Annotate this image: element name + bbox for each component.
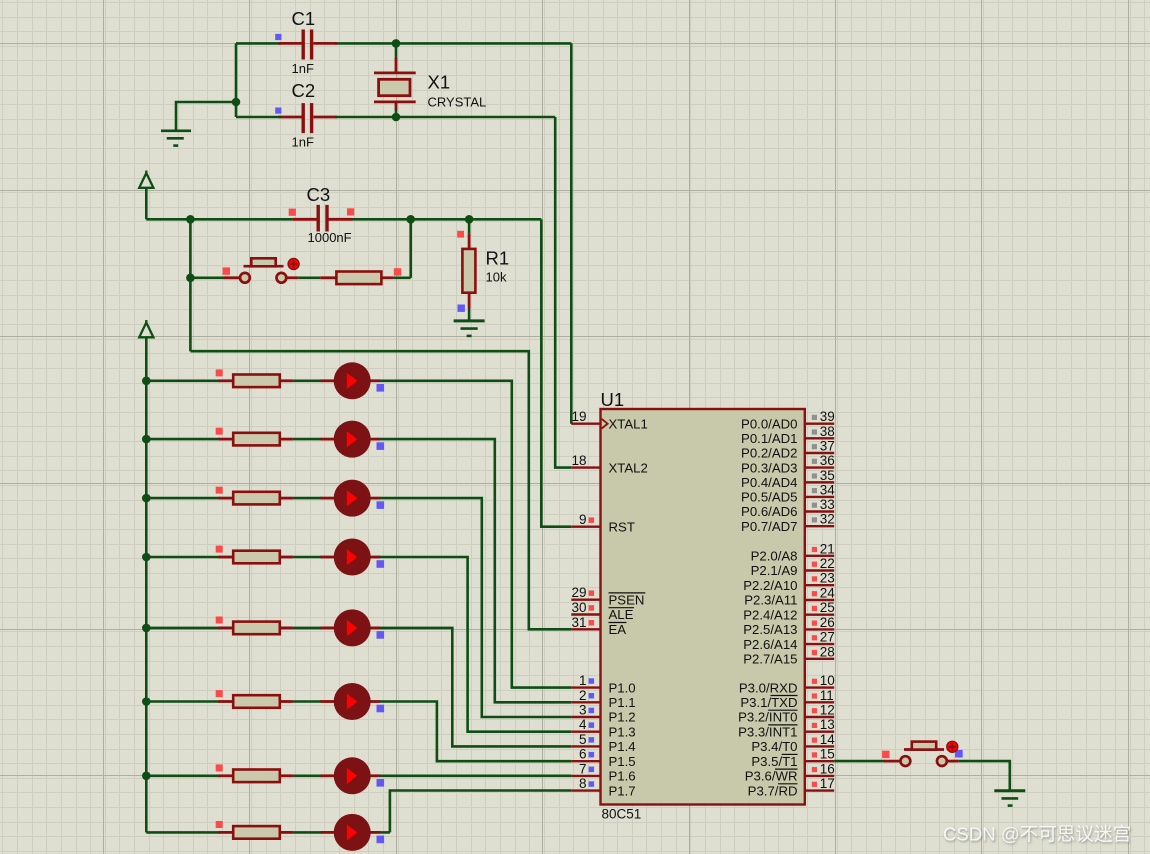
capacitor C2 xyxy=(275,103,337,133)
wire row 2 LED to pin 2 xyxy=(380,439,571,702)
svg-text:23: 23 xyxy=(820,571,835,586)
wire power stem (lower) xyxy=(145,337,148,381)
LED D7 xyxy=(321,757,385,794)
pin 17 P3.7/RD (right) xyxy=(748,776,835,798)
capacitor C1 xyxy=(275,30,337,60)
svg-text:P3.4/T0: P3.4/T0 xyxy=(751,739,797,754)
node bus row 6 xyxy=(142,697,151,706)
wire power stem (upper) xyxy=(145,188,148,220)
pin 12 P3.2/INT0 (right) xyxy=(738,703,835,725)
pin 13 P3.3/INT1 (right) xyxy=(738,717,835,739)
svg-text:P3.5/T1: P3.5/T1 xyxy=(751,754,797,769)
wire XTAL1 drop xyxy=(570,43,573,423)
svg-text:CRYSTAL: CRYSTAL xyxy=(428,94,487,109)
svg-text:P3.3/INT1: P3.3/INT1 xyxy=(738,724,797,739)
svg-text:CSDN @不可思议迷宫: CSDN @不可思议迷宫 xyxy=(943,824,1131,845)
node junction C3/button-res xyxy=(406,215,415,224)
wire row 5 LED to pin 5 xyxy=(380,628,571,747)
pin 30 ALE (left) xyxy=(571,600,634,622)
svg-text:1000nF: 1000nF xyxy=(308,230,352,245)
svg-text:P1.3: P1.3 xyxy=(609,724,636,739)
pin 14 P3.4/T0 (right) xyxy=(751,732,835,754)
svg-text:P3.7/RD: P3.7/RD xyxy=(748,783,798,798)
wire row 1 LED to pin 1 xyxy=(380,381,571,688)
wire C2 row to XTAL2 column xyxy=(335,116,555,119)
wire vertical button/EA xyxy=(189,219,192,351)
svg-text:P2.1/A9: P2.1/A9 xyxy=(751,563,798,578)
wire C2 row left xyxy=(236,116,281,119)
wire drop C3 to button row xyxy=(409,219,412,277)
wire row 7 bus to resistor xyxy=(146,774,220,777)
pin 9 RST (left) xyxy=(571,512,635,534)
crystal X1 xyxy=(374,43,416,117)
wire row 8 resistor to LED xyxy=(293,831,322,834)
wire row 6 resistor to LED xyxy=(293,700,322,703)
svg-text:C1: C1 xyxy=(292,8,316,29)
ground (below R1) xyxy=(454,321,485,336)
wire vertical C1-C2 left xyxy=(235,43,238,117)
svg-text:7: 7 xyxy=(579,761,587,776)
svg-text:38: 38 xyxy=(820,424,835,439)
wire button row right xyxy=(394,276,411,279)
wire row 2 bus to resistor xyxy=(146,438,220,441)
svg-text:P1.2: P1.2 xyxy=(609,710,636,725)
pin 32 P0.7/AD7 (right) xyxy=(741,512,835,534)
svg-text:30: 30 xyxy=(571,600,586,615)
resistor (LED row 1) xyxy=(216,369,293,387)
svg-text:P1.1: P1.1 xyxy=(609,695,636,710)
wire pin15 to button xyxy=(834,760,884,763)
wire row 4 LED to pin 4 xyxy=(380,557,571,732)
wire row 3 resistor to LED xyxy=(293,497,322,500)
wire row 1 bus to resistor xyxy=(146,379,220,382)
svg-text:P1.0: P1.0 xyxy=(609,680,636,695)
svg-text:2: 2 xyxy=(579,688,587,703)
svg-text:P0.3/AD3: P0.3/AD3 xyxy=(741,460,797,475)
svg-text:11: 11 xyxy=(820,688,834,703)
pin 21 P2.0/A8 (right) xyxy=(751,541,835,563)
wire R1 to ground xyxy=(468,309,471,321)
svg-text:8: 8 xyxy=(579,776,587,791)
svg-text:P3.6/WR: P3.6/WR xyxy=(745,769,798,784)
node crystal bottom xyxy=(392,113,401,122)
pin 2 P1.1 (left) xyxy=(571,688,635,710)
pin 37 P0.2/AD2 (right) xyxy=(741,439,835,461)
svg-text:34: 34 xyxy=(820,482,836,497)
pin 35 P0.4/AD4 (right) xyxy=(741,468,835,490)
svg-text:10: 10 xyxy=(820,673,835,688)
svg-text:16: 16 xyxy=(820,761,835,776)
svg-text:1: 1 xyxy=(579,673,587,688)
pin 6 P1.5 (left) xyxy=(571,747,635,769)
resistor R1 xyxy=(457,231,475,312)
svg-text:P3.0/RXD: P3.0/RXD xyxy=(739,680,798,695)
pin 34 P0.5/AD5 (right) xyxy=(741,482,835,504)
svg-text:80C51: 80C51 xyxy=(602,807,642,822)
pin 16 P3.6/WR (right) xyxy=(745,761,835,783)
wire C1 row left xyxy=(236,42,281,45)
ground (top-left) xyxy=(161,131,191,146)
wire C3 node to R1 xyxy=(468,219,471,233)
svg-text:4: 4 xyxy=(579,717,587,732)
pin 4 P1.3 (left) xyxy=(571,717,635,739)
power symbol (upper) xyxy=(139,171,153,188)
svg-text:25: 25 xyxy=(820,600,835,615)
pin 10 P3.0/RXD (right) xyxy=(739,673,835,695)
push button (reset) xyxy=(223,258,299,282)
svg-text:RST: RST xyxy=(609,519,635,534)
pin 38 P0.1/AD1 (right) xyxy=(741,424,835,446)
LED D2 xyxy=(321,421,385,458)
svg-text:P1.7: P1.7 xyxy=(609,783,636,798)
svg-text:39: 39 xyxy=(820,409,835,424)
svg-text:C3: C3 xyxy=(307,184,331,205)
wire ground branch top-left xyxy=(176,102,236,131)
wire row 8 bus to resistor xyxy=(146,831,220,834)
svg-text:P0.1/AD1: P0.1/AD1 xyxy=(741,431,797,446)
svg-text:9: 9 xyxy=(579,512,587,527)
resistor (LED row 6) xyxy=(216,690,293,708)
resistor (LED row 8) xyxy=(216,821,293,839)
pin 39 P0.0/AD0 (right) xyxy=(741,409,835,431)
LED D8 xyxy=(321,814,385,851)
pin 31 EA (left) xyxy=(571,615,626,637)
node bus row 1 xyxy=(142,377,151,386)
wire EA tie to VCC xyxy=(190,351,571,629)
pin 33 P0.6/AD6 (right) xyxy=(741,497,835,519)
pin 28 P2.7/A15 (right) xyxy=(743,644,835,666)
node bus row 4 xyxy=(142,553,151,562)
pin 3 P1.2 (left) xyxy=(571,703,635,725)
pin 5 P1.4 (left) xyxy=(571,732,635,754)
svg-text:31: 31 xyxy=(571,615,586,630)
resistor (LED row 5) xyxy=(216,617,293,635)
pin 15 P3.5/T1 (right) xyxy=(751,747,835,769)
svg-text:P3.2/INT0: P3.2/INT0 xyxy=(738,710,797,725)
svg-text:21: 21 xyxy=(820,541,835,556)
svg-text:P1.5: P1.5 xyxy=(609,754,636,769)
svg-text:37: 37 xyxy=(820,439,835,454)
svg-text:14: 14 xyxy=(820,732,836,747)
capacitor C3 xyxy=(289,205,355,232)
svg-text:35: 35 xyxy=(820,468,835,483)
svg-text:C2: C2 xyxy=(292,80,316,101)
svg-text:P2.7/A15: P2.7/A15 xyxy=(743,652,797,667)
svg-text:19: 19 xyxy=(571,409,586,424)
svg-text:10k: 10k xyxy=(486,270,507,285)
resistor (LED row 3) xyxy=(216,487,293,505)
node crystal top xyxy=(392,39,401,48)
svg-text:12: 12 xyxy=(820,703,835,718)
pin 23 P2.2/A10 (right) xyxy=(743,571,835,593)
node junction ground tap xyxy=(232,98,241,107)
LED D4 xyxy=(321,539,385,576)
svg-text:17: 17 xyxy=(820,776,835,791)
pin 18 XTAL2 (left) xyxy=(571,453,648,475)
svg-text:ALE: ALE xyxy=(609,607,634,622)
wire row 3 LED to pin 3 xyxy=(380,498,571,717)
pin 36 P0.3/AD3 (right) xyxy=(741,453,835,475)
svg-text:P2.0/A8: P2.0/A8 xyxy=(751,549,798,564)
wire row 5 bus to resistor xyxy=(146,627,220,630)
node junction C3/button xyxy=(186,215,195,224)
wire row 6 LED to pin 6 xyxy=(380,702,571,762)
LED D5 xyxy=(321,609,385,646)
wire row 4 bus to resistor xyxy=(146,556,220,559)
svg-text:P0.4/AD4: P0.4/AD4 xyxy=(741,475,797,490)
button toggle marker (P3.5/T1) xyxy=(947,741,958,752)
wire button to resistor xyxy=(298,276,320,279)
wire row 3 bus to resistor xyxy=(146,497,220,500)
svg-text:28: 28 xyxy=(820,644,835,659)
LED D1 xyxy=(321,362,385,399)
wire row 5 resistor to LED xyxy=(293,627,322,630)
svg-text:18: 18 xyxy=(571,453,586,468)
power symbol (lower) xyxy=(139,320,153,337)
wire row 8 up to pin 8 xyxy=(390,791,571,833)
node bus row 5 xyxy=(142,624,151,633)
node junction button xyxy=(186,274,195,283)
node junction C3/R1 xyxy=(465,215,474,224)
pin 22 P2.1/A9 (right) xyxy=(751,556,835,578)
svg-text:32: 32 xyxy=(820,512,835,527)
wire row 7 LED to pin 7 xyxy=(380,774,571,777)
svg-text:XTAL1: XTAL1 xyxy=(609,416,648,431)
svg-text:29: 29 xyxy=(571,585,586,600)
node bus row 2 xyxy=(142,435,151,444)
svg-text:33: 33 xyxy=(820,497,835,512)
svg-text:P2.5/A13: P2.5/A13 xyxy=(743,622,797,637)
node bus row 7 xyxy=(142,772,151,781)
svg-text:P0.0/AD0: P0.0/AD0 xyxy=(741,416,797,431)
svg-text:P1.6: P1.6 xyxy=(609,769,636,784)
svg-text:P2.4/A12: P2.4/A12 xyxy=(743,607,797,622)
svg-text:P3.1/TXD: P3.1/TXD xyxy=(740,695,797,710)
svg-text:27: 27 xyxy=(820,630,835,645)
pin 29 PSEN (left) xyxy=(571,585,645,607)
op-amp U1 body (80C51 MCU) xyxy=(601,409,805,805)
button toggle marker (reset) xyxy=(288,258,299,269)
pin 1 P1.0 (left) xyxy=(571,673,635,695)
wire row 2 resistor to LED xyxy=(293,438,322,441)
svg-text:PSEN: PSEN xyxy=(609,592,645,607)
svg-text:22: 22 xyxy=(820,556,835,571)
wire XTAL2 drop xyxy=(555,117,571,468)
svg-text:13: 13 xyxy=(820,717,835,732)
svg-text:1nF: 1nF xyxy=(292,135,314,150)
LED D3 xyxy=(321,480,385,517)
wire C1 row to XTAL1 column xyxy=(335,42,571,45)
svg-text:P0.2/AD2: P0.2/AD2 xyxy=(741,446,797,461)
pin 8 P1.7 (left) xyxy=(571,776,635,798)
svg-text:XTAL2: XTAL2 xyxy=(609,460,648,475)
wire RST from RC node xyxy=(541,219,571,526)
svg-text:P0.7/AD7: P0.7/AD7 xyxy=(741,519,797,534)
svg-text:36: 36 xyxy=(820,453,835,468)
wire row 6 bus to resistor xyxy=(146,700,220,703)
svg-text:P2.6/A14: P2.6/A14 xyxy=(743,637,797,652)
push button (P3.5/T1) xyxy=(882,742,963,766)
node bus row 3 xyxy=(142,494,151,503)
wire button row left xyxy=(190,276,223,279)
svg-text:U1: U1 xyxy=(601,389,625,410)
svg-text:6: 6 xyxy=(579,747,587,762)
pin 27 P2.6/A14 (right) xyxy=(743,630,835,652)
svg-text:P1.4: P1.4 xyxy=(609,739,636,754)
wire LED supply bus xyxy=(145,381,148,833)
pin 11 P3.1/TXD (right) xyxy=(740,688,834,710)
svg-text:5: 5 xyxy=(579,732,587,747)
svg-text:R1: R1 xyxy=(486,248,510,269)
svg-text:15: 15 xyxy=(820,747,835,762)
svg-text:P2.2/A10: P2.2/A10 xyxy=(743,578,797,593)
wire row 7 resistor to LED xyxy=(293,774,322,777)
wire button to ground xyxy=(959,761,1010,791)
resistor (LED row 7) xyxy=(216,764,293,782)
LED D6 xyxy=(321,683,385,720)
pin 7 P1.6 (left) xyxy=(571,761,635,783)
pin 25 P2.4/A12 (right) xyxy=(743,600,835,622)
wire row 8 LED stub xyxy=(380,831,390,834)
pin 19 XTAL1 (left) xyxy=(571,409,648,431)
wire row 4 resistor to LED xyxy=(293,556,322,559)
svg-text:26: 26 xyxy=(820,615,835,630)
wire row 1 resistor to LED xyxy=(293,379,322,382)
pin 26 P2.5/A13 (right) xyxy=(743,615,835,637)
resistor (LED row 2) xyxy=(216,428,293,446)
svg-text:24: 24 xyxy=(820,586,836,601)
svg-text:3: 3 xyxy=(579,703,587,718)
svg-text:P2.3/A11: P2.3/A11 xyxy=(744,593,797,608)
ground (bottom-right) xyxy=(994,791,1025,806)
resistor (LED row 4) xyxy=(216,546,293,564)
svg-text:X1: X1 xyxy=(428,71,451,92)
svg-text:P0.5/AD5: P0.5/AD5 xyxy=(741,490,797,505)
svg-text:EA: EA xyxy=(609,622,627,637)
svg-text:1nF: 1nF xyxy=(292,61,314,76)
wire C3 row right xyxy=(353,218,542,221)
wire C3 row left xyxy=(146,218,292,221)
resistor (button row) xyxy=(320,268,401,284)
pin 24 P2.3/A11 (right) xyxy=(744,586,835,608)
svg-text:P0.6/AD6: P0.6/AD6 xyxy=(741,504,797,519)
